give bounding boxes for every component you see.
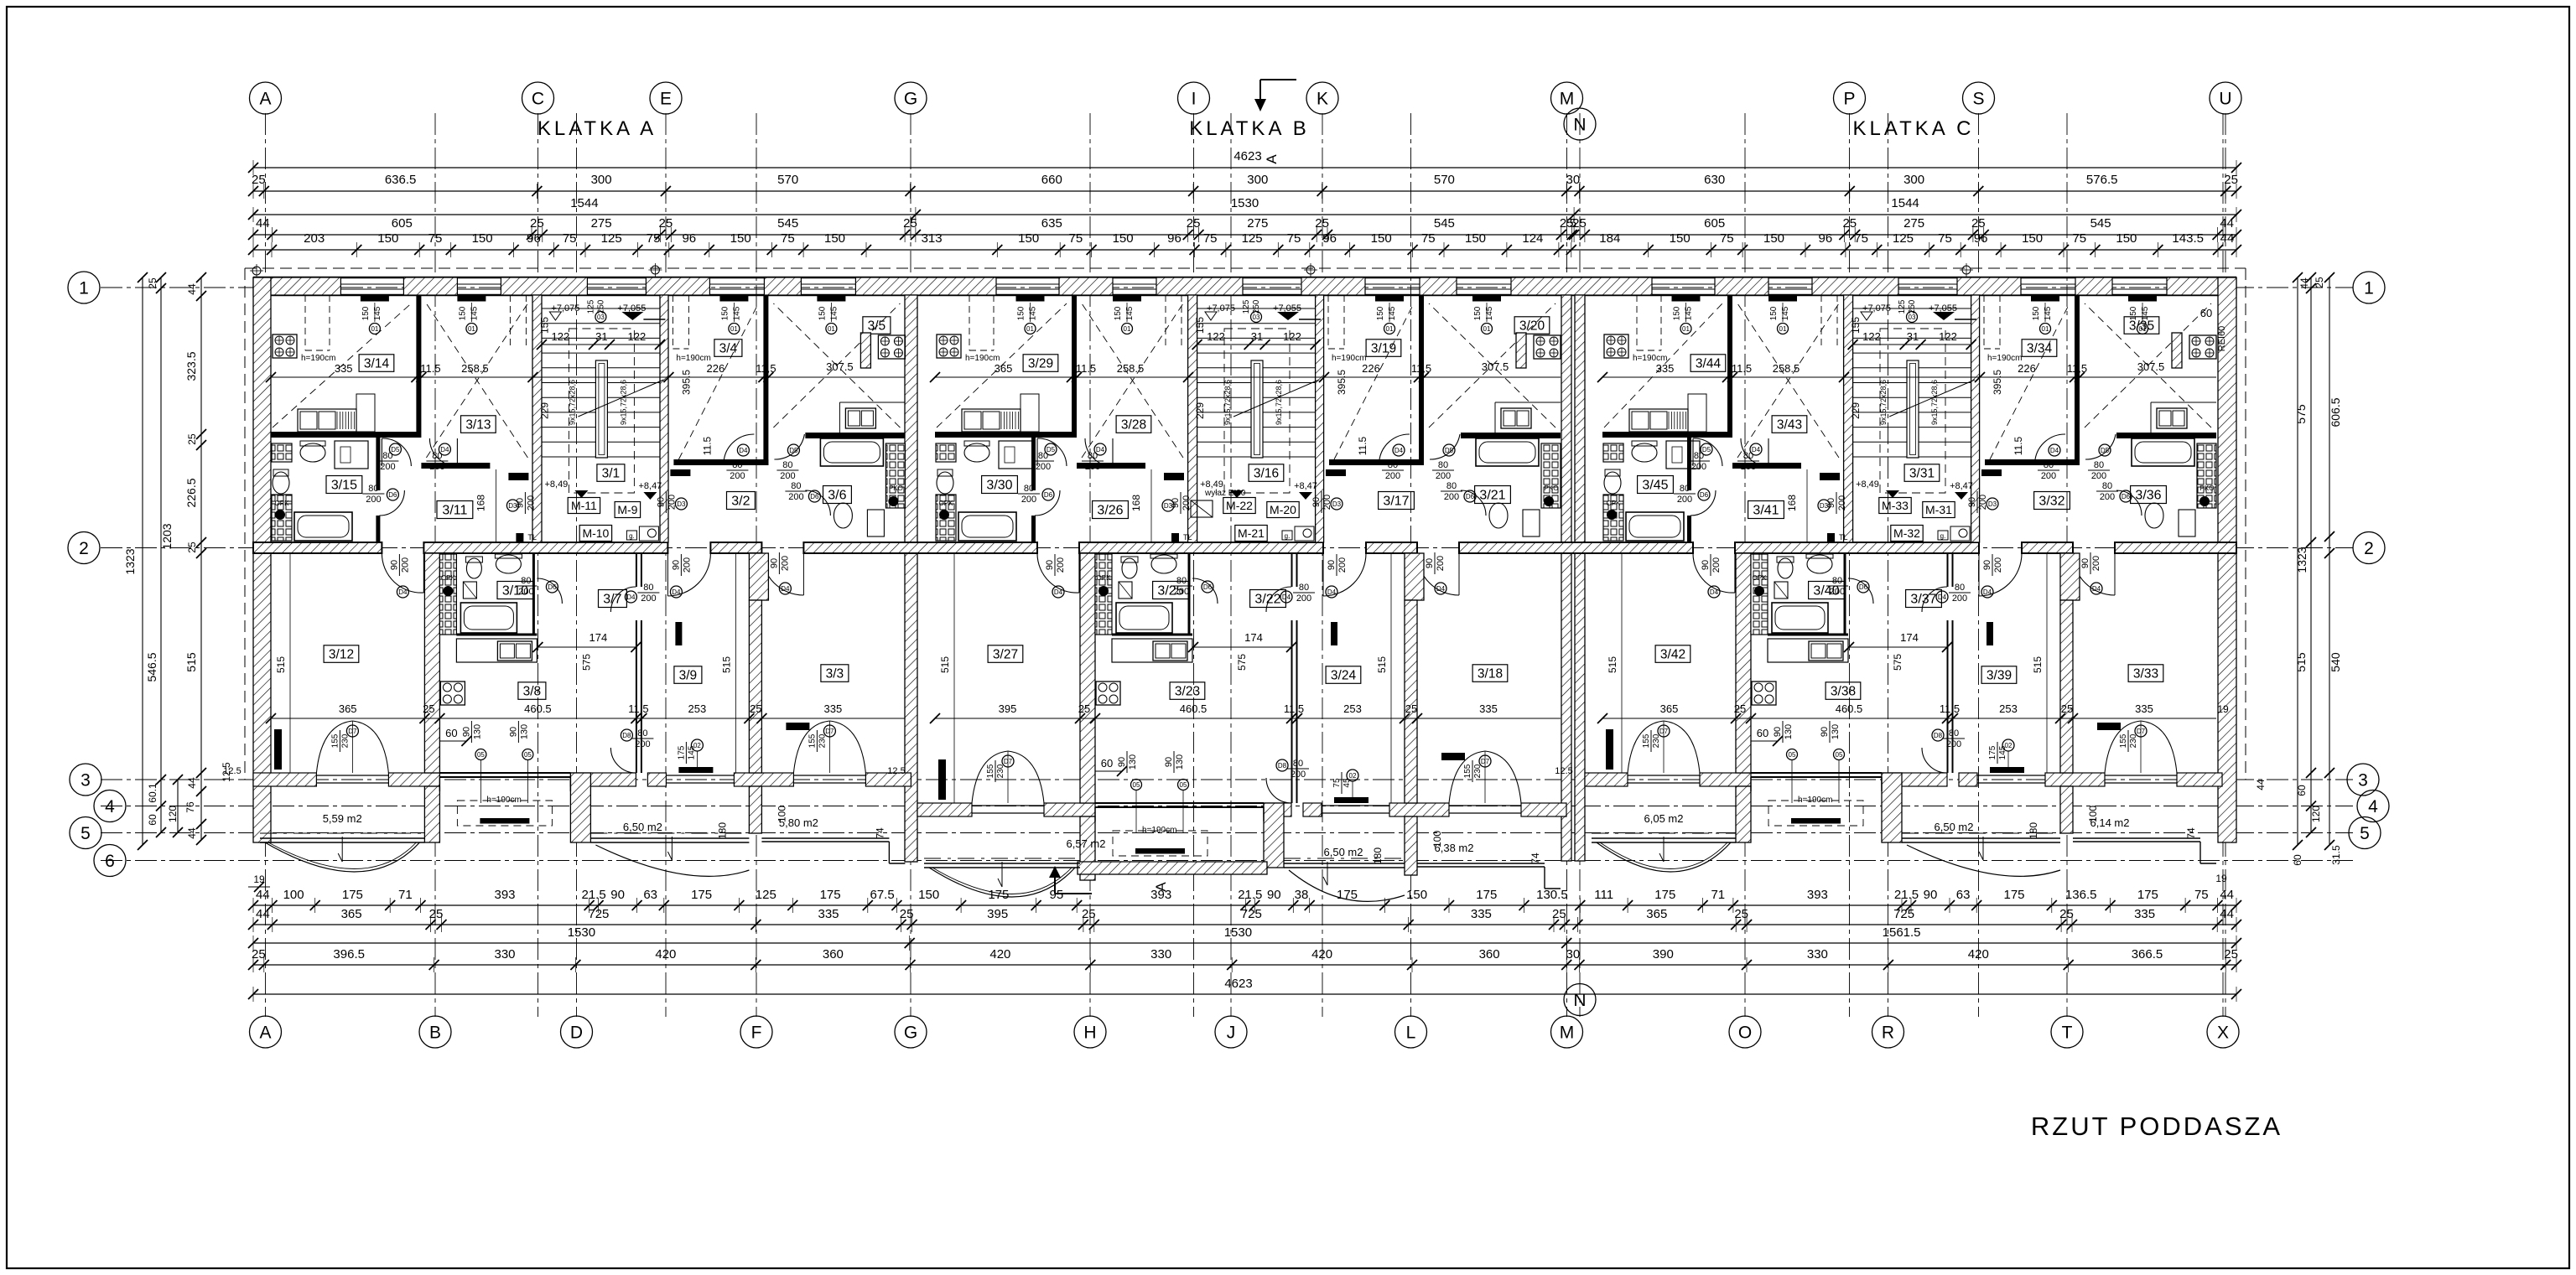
svg-text:44: 44	[256, 216, 270, 231]
svg-text:253: 253	[688, 702, 707, 715]
svg-text:+8,47: +8,47	[638, 481, 662, 491]
svg-text:80: 80	[1438, 460, 1448, 470]
corridor doors b	[1848, 578, 1873, 604]
bottom dimension row windows	[253, 904, 2236, 906]
kitchen counter t1	[962, 409, 1021, 432]
svg-text:OPK: OPK	[1607, 500, 1622, 507]
wall b corridor/room	[1291, 553, 1293, 587]
sink r2	[1501, 408, 1531, 428]
window annotation	[733, 303, 735, 322]
svg-text:145: 145	[470, 306, 479, 320]
washer	[999, 441, 1032, 469]
svg-text:80: 80	[1446, 481, 1457, 491]
svg-text:229: 229	[1194, 402, 1206, 419]
svg-text:X: X	[2217, 1024, 2229, 1043]
washer	[335, 441, 368, 469]
svg-text:D4: D4	[1394, 447, 1404, 454]
svg-text:25: 25	[1078, 702, 1090, 715]
svg-text:3/23: 3/23	[1175, 684, 1200, 698]
svg-text:396.5: 396.5	[333, 947, 365, 961]
svg-text:125: 125	[601, 231, 622, 246]
svg-text:12.5: 12.5	[223, 766, 241, 776]
svg-text:3/37: 3/37	[1910, 593, 1936, 607]
svg-text:25: 25	[750, 702, 761, 715]
svg-text:80: 80	[432, 451, 442, 461]
bottom interior dim chain	[271, 718, 905, 719]
stove b	[440, 682, 465, 705]
stove b	[1096, 682, 1120, 705]
wall between rooms r1/r2	[1419, 295, 1424, 465]
right dim column 1323	[2297, 277, 2298, 845]
svg-text:200: 200	[1337, 557, 1348, 573]
bath wall vertical	[1687, 438, 1691, 490]
window glazing	[340, 283, 403, 285]
svg-text:184: 184	[1599, 231, 1620, 246]
svg-text:515: 515	[1607, 656, 1618, 673]
svg-text:80: 80	[2102, 481, 2112, 491]
window glazing	[2021, 283, 2075, 285]
svg-text:250: 250	[596, 299, 605, 314]
svg-text:150: 150	[1769, 306, 1779, 320]
svg-text:g.: g.	[1940, 532, 1946, 540]
svg-text:9x15,72x28,6: 9x15,72x28,6	[1223, 380, 1232, 425]
svg-text:203: 203	[304, 231, 325, 246]
svg-text:g.: g.	[1285, 532, 1291, 540]
svg-text:76: 76	[184, 801, 196, 813]
svg-text:71: 71	[1711, 888, 1725, 902]
svg-text:25: 25	[2061, 702, 2073, 715]
svg-text:M-20: M-20	[1270, 503, 1296, 516]
wall under t1	[1602, 432, 1732, 438]
svg-text:250: 250	[1908, 299, 1917, 314]
svg-text:05: 05	[1836, 751, 1843, 759]
bath r fixtures	[2132, 438, 2194, 466]
corridor doors b	[1192, 578, 1218, 604]
svg-text:313: 313	[922, 231, 943, 246]
terrace recess	[1094, 807, 1096, 821]
svg-text:200: 200	[1952, 593, 1967, 604]
svg-text:9x15,72x28,6: 9x15,72x28,6	[1930, 380, 1939, 425]
svg-text:D4: D4	[1327, 588, 1337, 596]
svg-text:150: 150	[1113, 231, 1134, 246]
window glazing	[1113, 283, 1156, 285]
wall under t1	[935, 432, 1077, 438]
balcony arrow	[341, 837, 343, 862]
reverse diagonals	[1082, 303, 1183, 458]
svg-text:80: 80	[2044, 460, 2054, 470]
svg-text:145: 145	[373, 306, 382, 320]
svg-text:19: 19	[2215, 873, 2227, 884]
svg-text:130.5: 130.5	[1536, 888, 1568, 902]
window annotation	[830, 303, 832, 322]
kitchen window leaders	[475, 749, 486, 760]
bottom dimension row 1530	[253, 942, 2236, 944]
svg-text:575: 575	[1892, 654, 1903, 671]
svg-text:200: 200	[380, 462, 395, 472]
terrace recess	[439, 777, 440, 791]
svg-text:230: 230	[2129, 733, 2138, 748]
svg-text:60: 60	[147, 814, 158, 826]
bathtub	[294, 512, 352, 541]
svg-text:25: 25	[429, 907, 444, 921]
party wall balcony ext	[1736, 786, 1751, 842]
svg-text:3/32: 3/32	[2038, 495, 2064, 509]
svg-text:3/17: 3/17	[1383, 495, 1409, 509]
svg-text:75: 75	[563, 231, 577, 246]
svg-text:125: 125	[1242, 299, 1251, 314]
bottom dimension row 4623	[253, 993, 2236, 995]
svg-text:150: 150	[361, 306, 371, 320]
svg-text:175: 175	[691, 888, 712, 902]
svg-text:D: D	[570, 1024, 583, 1043]
svg-text:150: 150	[1473, 306, 1483, 320]
svg-text:420: 420	[1968, 947, 1989, 961]
svg-text:75: 75	[1720, 231, 1734, 246]
dim 174	[1849, 646, 1947, 648]
wall between rooms t1/t2	[416, 295, 421, 432]
svg-text:REI60: REI60	[2217, 326, 2227, 352]
svg-text:44: 44	[2220, 888, 2234, 902]
svg-text:200: 200	[641, 593, 656, 604]
svg-text:M-32: M-32	[1893, 526, 1920, 540]
svg-text:200: 200	[1436, 471, 1451, 481]
svg-text:25: 25	[1405, 702, 1417, 715]
svg-text:390: 390	[1653, 947, 1674, 961]
svg-text:9x15,72x28,6: 9x15,72x28,6	[568, 380, 576, 425]
svg-text:96: 96	[527, 231, 541, 246]
svg-text:60: 60	[2292, 854, 2303, 866]
svg-text:3/14: 3/14	[364, 356, 390, 371]
svg-text:725: 725	[1893, 907, 1914, 921]
svg-text:3/2: 3/2	[731, 495, 750, 509]
svg-text:45: 45	[1343, 778, 1352, 788]
party wall bottom left	[1736, 553, 1751, 773]
svg-text:3/27: 3/27	[993, 647, 1018, 661]
stair dims	[1197, 344, 1316, 345]
svg-text:63: 63	[643, 888, 657, 902]
balcony parapet left of b2	[570, 773, 590, 842]
svg-text:KLATKA C: KLATKA C	[1853, 117, 1975, 140]
svg-text:575: 575	[2294, 404, 2308, 424]
svg-text:D8: D8	[1278, 762, 1287, 770]
reverse diagonals	[1737, 303, 1839, 458]
svg-text:RZUT PODDASZA: RZUT PODDASZA	[2031, 1112, 2283, 1141]
svg-text:D4: D4	[781, 585, 790, 593]
wall between rooms t1/t2	[1727, 295, 1732, 432]
svg-text:D6: D6	[1044, 491, 1053, 499]
wall under t2	[421, 463, 490, 469]
svg-text:80: 80	[1293, 759, 1303, 769]
svg-text:200: 200	[2100, 492, 2115, 502]
svg-text:D8: D8	[622, 732, 631, 739]
svg-text:125: 125	[586, 299, 595, 314]
svg-text:3/41: 3/41	[1753, 504, 1779, 518]
svg-text:11.5: 11.5	[1732, 362, 1752, 375]
svg-text:G: G	[904, 90, 917, 109]
svg-text:D3: D3	[677, 500, 686, 508]
svg-text:25: 25	[1734, 907, 1748, 921]
party wall bottom right	[2060, 600, 2073, 773]
svg-text:275: 275	[591, 216, 612, 231]
svg-text:100: 100	[283, 888, 304, 902]
window glazing	[1768, 283, 1812, 285]
window annotation	[2142, 303, 2143, 322]
bath fixtures left	[272, 443, 292, 462]
svg-text:05: 05	[1180, 781, 1187, 789]
svg-text:3/31: 3/31	[1909, 466, 1935, 480]
axis circles right	[2353, 272, 2385, 303]
svg-text:200: 200	[1385, 471, 1400, 481]
toilet	[273, 472, 289, 494]
svg-text:h=190cm: h=190cm	[301, 354, 335, 363]
kitchen window leaders	[1131, 780, 1142, 790]
svg-text:275: 275	[1903, 216, 1924, 231]
door D6 bath	[1035, 490, 1060, 516]
svg-text:122: 122	[552, 330, 570, 343]
svg-text:150: 150	[818, 306, 827, 320]
bathtub b	[1772, 603, 1828, 633]
wall under r1	[1329, 459, 1424, 465]
svg-text:200: 200	[635, 739, 650, 749]
svg-text:90: 90	[1327, 560, 1337, 570]
svg-text:5,59 m2: 5,59 m2	[323, 812, 362, 825]
svg-text:25: 25	[147, 277, 158, 289]
svg-text:395: 395	[987, 907, 1008, 921]
svg-text:11.5: 11.5	[2067, 362, 2087, 375]
stair dashed outline	[1880, 329, 1945, 493]
svg-text:25: 25	[1187, 216, 1201, 231]
svg-text:25: 25	[1572, 216, 1587, 231]
svg-text:D4: D4	[1282, 593, 1291, 601]
svg-text:25: 25	[1971, 216, 1986, 231]
svg-text:200: 200	[1085, 462, 1100, 472]
svg-text:300: 300	[591, 173, 612, 187]
svg-text:122: 122	[628, 330, 647, 343]
balcony parapet left of b2	[1264, 803, 1284, 868]
svg-text:330: 330	[494, 947, 515, 961]
party wall bottom right	[1405, 600, 1417, 803]
svg-text:200: 200	[1036, 462, 1051, 472]
dim 174	[538, 646, 636, 648]
svg-text:636.5: 636.5	[385, 173, 417, 187]
svg-text:h=190cm: h=190cm	[965, 354, 1000, 363]
svg-text:200: 200	[2091, 556, 2101, 571]
svg-text:75: 75	[1332, 778, 1342, 788]
svg-text:229: 229	[1850, 402, 1862, 419]
svg-text:3/7: 3/7	[603, 593, 621, 607]
svg-text:KLATKA A: KLATKA A	[538, 117, 657, 140]
svg-text:N: N	[1573, 116, 1586, 135]
stair left wall	[532, 295, 542, 542]
svg-text:2: 2	[79, 539, 89, 558]
window annotation	[1389, 303, 1390, 322]
svg-text:D7: D7	[348, 728, 357, 735]
bathtub b	[460, 603, 517, 633]
svg-text:4: 4	[2368, 797, 2378, 816]
svg-text:80: 80	[1680, 484, 1690, 494]
svg-text:h=190cm: h=190cm	[1142, 826, 1176, 835]
svg-text:25: 25	[903, 216, 917, 231]
stair right wall	[1971, 295, 1980, 542]
svg-text:253: 253	[1343, 702, 1362, 715]
svg-text:90: 90	[1117, 757, 1127, 767]
svg-text:90: 90	[1982, 560, 1992, 570]
TL	[516, 533, 523, 542]
svg-text:1561.5: 1561.5	[1883, 925, 1921, 940]
stair treads	[542, 308, 660, 309]
top dimension row axes	[253, 190, 2236, 192]
svg-text:230: 230	[818, 733, 827, 748]
svg-text:31: 31	[1907, 330, 1919, 343]
svg-text:3: 3	[80, 771, 91, 790]
loggia b6	[1417, 863, 1545, 864]
axis circles top	[250, 82, 282, 114]
svg-text:75: 75	[647, 231, 661, 246]
svg-text:90: 90	[656, 497, 666, 507]
right outer wall	[2218, 277, 2236, 842]
svg-text:635: 635	[1041, 216, 1062, 231]
svg-text:335: 335	[2134, 907, 2155, 921]
svg-text:3/28: 3/28	[1121, 417, 1146, 432]
washer	[1666, 441, 1700, 469]
svg-text:75: 75	[2072, 231, 2086, 246]
svg-text:25: 25	[1734, 702, 1746, 715]
svg-text:A: A	[259, 1024, 271, 1043]
svg-text:200: 200	[780, 471, 795, 481]
svg-text:M-31: M-31	[1925, 503, 1952, 516]
svg-text:75: 75	[1421, 231, 1436, 246]
svg-text:11.5: 11.5	[420, 362, 440, 375]
svg-text:90: 90	[1311, 497, 1322, 507]
svg-text:OPK: OPK	[1097, 574, 1112, 582]
svg-text:96: 96	[1322, 231, 1337, 246]
survey marker	[1306, 266, 1315, 274]
svg-text:25: 25	[900, 907, 914, 921]
svg-text:258.5: 258.5	[461, 362, 489, 375]
svg-text:75: 75	[1854, 231, 1868, 246]
svg-text:155: 155	[2119, 733, 2128, 748]
svg-text:3/4: 3/4	[719, 341, 738, 355]
knee wall dashed	[304, 295, 306, 350]
svg-text:KLATKA B: KLATKA B	[1189, 117, 1310, 140]
svg-text:175: 175	[1476, 888, 1497, 902]
svg-text:200: 200	[400, 557, 410, 573]
svg-text:h=190cm: h=190cm	[676, 354, 710, 363]
svg-text:90: 90	[1773, 727, 1783, 737]
svg-text:3/10: 3/10	[502, 584, 528, 599]
svg-text:365: 365	[1660, 702, 1679, 715]
svg-text:g.: g.	[629, 532, 635, 540]
window glazing	[587, 283, 646, 285]
svg-text:D3: D3	[1332, 500, 1342, 508]
svg-text:200: 200	[2041, 471, 2056, 481]
svg-text:21.5: 21.5	[1894, 888, 1919, 902]
svg-text:258.5: 258.5	[1117, 362, 1145, 375]
svg-text:100: 100	[776, 806, 787, 822]
stove r2	[878, 335, 905, 359]
svg-text:150: 150	[2022, 231, 2043, 246]
svg-text:67.5: 67.5	[870, 888, 894, 902]
wall under t2	[1732, 463, 1801, 469]
svg-text:74: 74	[874, 827, 885, 839]
svg-text:150: 150	[1371, 231, 1392, 246]
svg-text:D4: D4	[2050, 447, 2059, 454]
svg-text:PKO: PKO	[1545, 485, 1559, 492]
stove t1	[1604, 334, 1628, 358]
svg-text:200: 200	[1291, 770, 1306, 780]
top interior dim chain	[1602, 376, 2216, 378]
middle wall band	[253, 542, 382, 553]
svg-text:420: 420	[655, 947, 676, 961]
left dim column detail	[200, 277, 202, 840]
515 dims bottom	[1390, 553, 1392, 803]
svg-text:90: 90	[610, 888, 625, 902]
doors D5/D4 left	[1037, 438, 1067, 466]
svg-text:G: G	[904, 1024, 917, 1043]
stair direction line	[578, 380, 663, 417]
svg-text:365: 365	[339, 702, 357, 715]
svg-text:90: 90	[1425, 558, 1435, 568]
svg-text:226.5: 226.5	[184, 478, 198, 507]
svg-text:60: 60	[1757, 727, 1768, 739]
svg-text:11.5: 11.5	[1357, 436, 1368, 455]
wall b corridor/room	[636, 553, 637, 587]
svg-text:3/33: 3/33	[2133, 666, 2158, 681]
horizontal axis grid lines	[101, 287, 2353, 288]
svg-text:D5: D5	[789, 447, 798, 454]
svg-text:3/30: 3/30	[986, 479, 1012, 493]
svg-text:155: 155	[986, 764, 995, 778]
kitchen counter t1	[1629, 409, 1688, 432]
door D8 to balcony	[1922, 748, 1947, 773]
dim 174	[1193, 646, 1291, 648]
svg-text:395.5: 395.5	[1992, 370, 2003, 395]
svg-text:9x15,72x28,6: 9x15,72x28,6	[619, 380, 627, 425]
sink	[300, 443, 325, 462]
svg-text:300: 300	[1247, 173, 1268, 187]
svg-text:150: 150	[1673, 306, 1682, 320]
roof diagonals dashed	[273, 303, 411, 428]
chimney bottom	[2060, 553, 2080, 600]
svg-text:335: 335	[1471, 907, 1492, 921]
svg-text:546.5: 546.5	[145, 652, 158, 682]
balcony door arcs room b6	[1449, 751, 1485, 803]
svg-text:96: 96	[1819, 231, 1833, 246]
svg-text:725: 725	[588, 907, 609, 921]
svg-text:5: 5	[2360, 824, 2370, 843]
svg-text:T: T	[2062, 1024, 2073, 1043]
svg-text:3/38: 3/38	[1831, 684, 1856, 698]
svg-text:3/1: 3/1	[602, 466, 621, 480]
svg-text:D3: D3	[1164, 502, 1173, 510]
svg-text:01: 01	[1682, 325, 1690, 333]
svg-text:05: 05	[1133, 781, 1140, 789]
svg-text:D4: D4	[1983, 588, 1992, 596]
svg-text:1544: 1544	[570, 196, 598, 210]
party wall bottom left	[424, 553, 439, 773]
svg-text:200: 200	[1056, 557, 1066, 573]
svg-text:1: 1	[2364, 279, 2374, 298]
svg-text:71: 71	[398, 888, 413, 902]
svg-text:95: 95	[1050, 888, 1064, 902]
room labels bottom	[324, 645, 359, 663]
svg-text:155: 155	[538, 317, 550, 334]
svg-text:3/36: 3/36	[2135, 489, 2161, 503]
svg-text:25: 25	[1082, 907, 1096, 921]
svg-text:38: 38	[1295, 888, 1309, 902]
svg-text:80: 80	[732, 460, 742, 470]
svg-text:OPK: OPK	[939, 500, 954, 507]
